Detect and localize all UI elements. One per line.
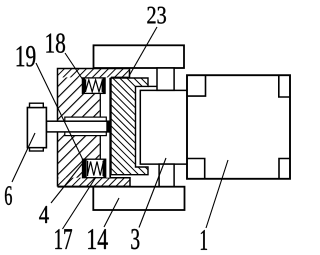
housing top liner strip (58, 69, 130, 78)
label 23 (147, 7, 166, 24)
bottom tab (159, 164, 174, 187)
screw shaft bar (46, 121, 109, 132)
housing block 4 outline (58, 69, 131, 187)
bottom spring box left wall (83, 159, 87, 178)
shaft lower rail (65, 132, 107, 136)
shaft end cap (106, 121, 109, 132)
gib left line (99, 93, 101, 159)
label 4 (39, 206, 49, 223)
knob 6 body (27, 108, 46, 148)
label 6 (5, 186, 12, 205)
leader 3 (139, 158, 166, 228)
leader 6 (12, 133, 35, 182)
gib right line (109, 78, 111, 178)
leader 1 (206, 160, 228, 228)
block 1 corner BR (279, 159, 290, 179)
connection plate 3 outline (cavity) (140, 90, 187, 164)
label 3 (131, 229, 139, 249)
housing bottom edge (58, 186, 131, 188)
block 1 corner TR (279, 75, 290, 97)
knob bottom cap (30, 148, 44, 151)
top tab (157, 68, 174, 90)
bottom spring box right wall (103, 159, 105, 178)
knob top cap (30, 103, 44, 107)
leader 4 (51, 164, 83, 204)
top spring 23 zigzag (85, 79, 102, 92)
housing block 4 hatched body (58, 77, 100, 177)
label 14 (88, 229, 108, 249)
label 17 (55, 229, 72, 249)
bottom spring box 19 (83, 159, 106, 178)
label 1 (201, 230, 207, 250)
block 1 corner BL (187, 159, 205, 179)
top spring box right wall (103, 78, 106, 94)
leader 14 (104, 198, 119, 227)
leader 18 (65, 53, 83, 80)
step line A (148, 85, 157, 87)
shaft upper rail (65, 117, 107, 121)
label 18 (46, 33, 65, 52)
base plate 14 (93, 187, 184, 210)
clamp column hatched (piece over spring) (111, 78, 148, 175)
label 19 (17, 46, 36, 67)
top plate (94, 45, 185, 68)
leader 17 (63, 177, 97, 229)
housing bottom liner strip (58, 178, 131, 187)
top spring box left wall (82, 78, 85, 94)
leader 23 (129, 27, 157, 76)
top spring box 18 (82, 78, 105, 94)
leader 19 (36, 63, 83, 159)
block 1 corner TL (187, 75, 206, 96)
workpiece block 1 (187, 75, 290, 179)
slider gib white strip (100, 78, 110, 178)
bottom spring 17 zigzag (87, 161, 103, 176)
